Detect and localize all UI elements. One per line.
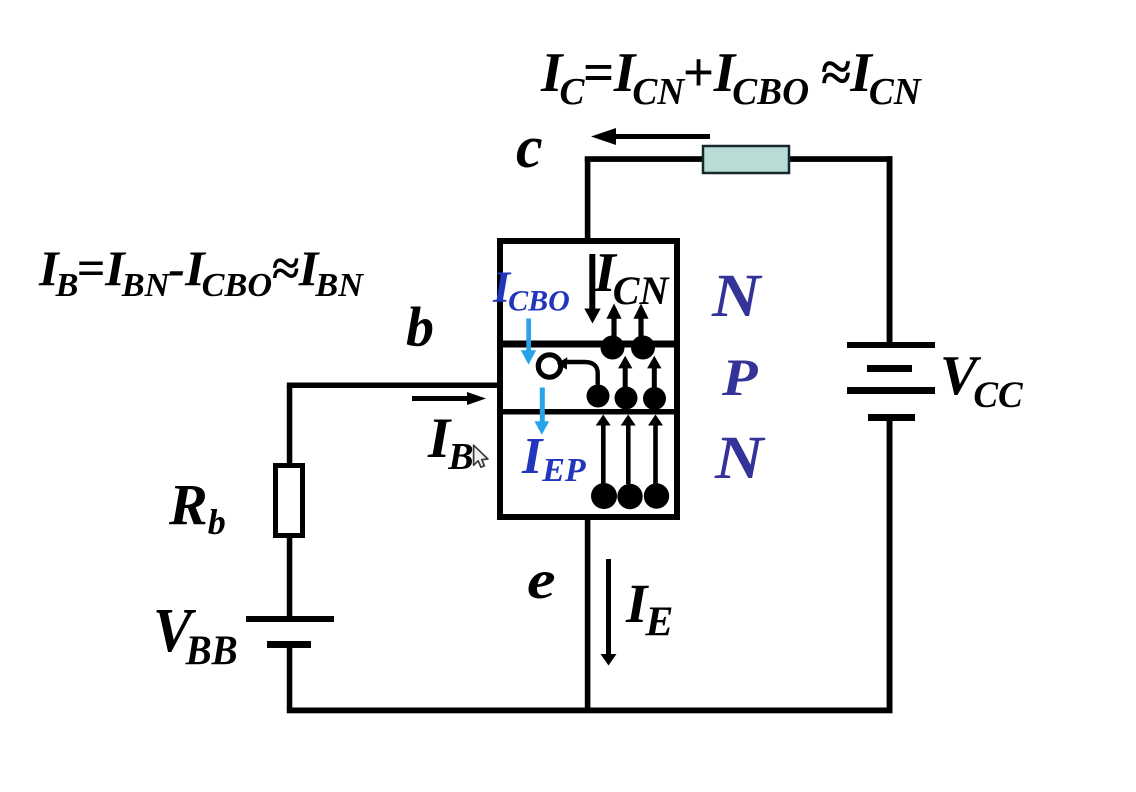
electron dots row1 (at CB junction) bbox=[601, 336, 625, 360]
svg-text:b: b bbox=[406, 297, 434, 359]
wire right vertical upper (to VCC) bbox=[887, 156, 893, 343]
resistor Rb bbox=[276, 466, 303, 536]
electron dots row2 (at BE junction) bbox=[587, 385, 610, 408]
recombination curve arrow bbox=[566, 362, 598, 385]
hole circle bbox=[538, 355, 560, 377]
wire left vertical lower (VBB to bottom) bbox=[287, 647, 293, 710]
wire emitter vertical lower bbox=[585, 518, 591, 710]
arrow IB (pointing right into base) bbox=[412, 392, 486, 405]
wire left vertical above Rb bbox=[287, 386, 293, 466]
mouse cursor bbox=[474, 445, 488, 467]
arrow ICBO (blue, down) bbox=[521, 319, 536, 365]
junction line collector-base bbox=[497, 341, 680, 348]
electron dots row3 (in emitter) bbox=[591, 483, 617, 509]
node e label bbox=[527, 549, 556, 610]
arrow IEP (blue, down) bbox=[534, 388, 549, 435]
region label N (emitter) bbox=[714, 424, 766, 492]
label VBB bbox=[153, 596, 238, 674]
electron arrows row2 bbox=[618, 356, 662, 391]
wire bottom horizontal bbox=[287, 708, 893, 714]
electron arrows row1 bbox=[606, 304, 648, 344]
region label N (collector) bbox=[711, 262, 763, 330]
svg-text:c: c bbox=[516, 114, 543, 180]
svg-text:IC=ICN+ICBO ≈ICN: IC=ICN+ICBO ≈ICN bbox=[540, 42, 923, 113]
transistor block outline bbox=[500, 241, 677, 517]
formula IB = IBN - ICBO ≈ IBN bbox=[38, 240, 364, 304]
junction line base-emitter bbox=[497, 409, 680, 415]
battery VBB bbox=[246, 616, 334, 648]
svg-text:IB=IBN-ICBO≈IBN: IB=IBN-ICBO≈IBN bbox=[38, 240, 364, 304]
arrow IC (top, pointing left) bbox=[591, 128, 710, 145]
battery VCC bbox=[847, 342, 935, 421]
wire right vertical lower (VCC to bottom) bbox=[887, 421, 893, 713]
wire top horizontal left of load resistor bbox=[585, 156, 705, 162]
svg-text:N: N bbox=[711, 262, 763, 330]
wire base horizontal bbox=[287, 383, 499, 389]
svg-text:e: e bbox=[527, 549, 556, 610]
electron arrows row3 bbox=[596, 415, 663, 485]
wire collector vertical (c to block) bbox=[585, 157, 591, 241]
region label P (base) bbox=[721, 348, 759, 407]
svg-text:N: N bbox=[714, 424, 766, 492]
resistor Rc collector load bbox=[703, 146, 789, 173]
formula IC = ICN + ICBO ≈ ICN bbox=[540, 42, 923, 113]
wire top horizontal right of load resistor bbox=[788, 156, 893, 162]
arrow IE (pointing down) bbox=[601, 559, 617, 666]
svg-text:P: P bbox=[721, 348, 759, 407]
arrow ICN (pointing down inside collector) bbox=[584, 254, 600, 324]
wire left vertical between Rb and VBB bbox=[287, 536, 293, 618]
